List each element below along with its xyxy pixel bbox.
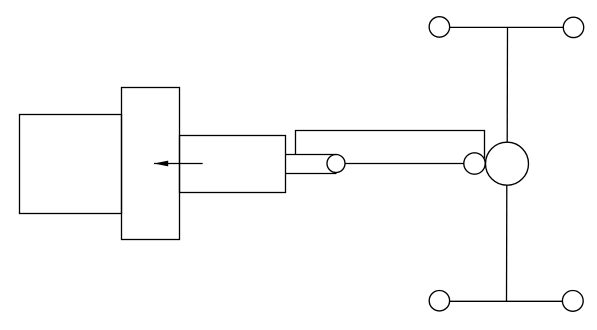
cylinder end block (left square) [20, 115, 122, 214]
feedback linkage (open rectangle) [296, 131, 485, 159]
flow arrow [154, 161, 203, 167]
crank disc (big circle) [486, 142, 529, 185]
valve body (tall rectangle) [122, 88, 180, 240]
bottom axle beam [450, 300, 563, 302]
top axle beam [450, 26, 564, 28]
piston rod (bottom edge) [286, 173, 337, 175]
bottom-right wheel circle [562, 291, 583, 312]
top-left wheel circle [429, 17, 450, 38]
rod-end pivot circle A [327, 155, 345, 173]
lower steering shaft [506, 185, 508, 301]
piston (middle rectangle) [180, 136, 286, 193]
bottom-left wheel circle [429, 291, 449, 311]
drag link rod [345, 163, 464, 165]
link pivot circle B [464, 153, 485, 174]
piston rod (top edge) [286, 154, 337, 156]
upper steering shaft [506, 27, 508, 142]
top-right wheel circle [563, 17, 583, 37]
